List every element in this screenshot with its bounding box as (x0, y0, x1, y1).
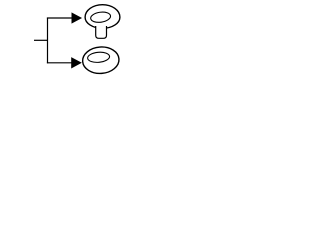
bell symbol bottom: outer dome (82, 46, 120, 75)
bell symbol top: outer dome (85, 5, 120, 29)
wire input stub (34, 39, 48, 41)
wire bottom branch (47, 62, 73, 64)
wire top branch (47, 17, 73, 19)
arrowhead bottom (72, 58, 82, 68)
bell symbol top: stem base (96, 26, 107, 38)
bell symbol bottom: inner highlight ellipse (87, 51, 110, 63)
arrowhead top (72, 13, 82, 23)
bell symbol top: inner highlight ellipse (90, 11, 111, 24)
wire vertical bus (47, 18, 49, 64)
